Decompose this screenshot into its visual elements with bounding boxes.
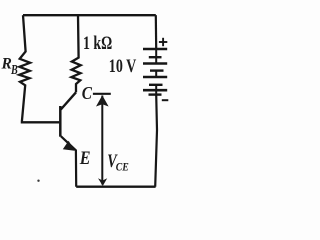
svg-text:B: B (10, 62, 18, 78)
svg-text:R: R (1, 55, 12, 72)
svg-text:1 kΩ: 1 kΩ (83, 32, 112, 54)
svg-text:10 V: 10 V (109, 55, 136, 77)
svg-text:C: C (82, 83, 93, 103)
svg-text:CE: CE (116, 161, 129, 174)
svg-text:E: E (79, 147, 91, 169)
